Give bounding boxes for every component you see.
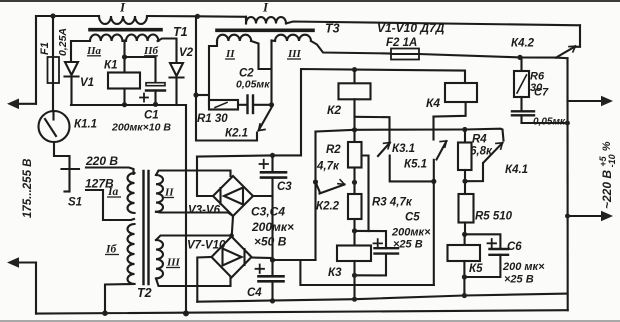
svg-text:200мк×: 200мк× <box>391 227 431 239</box>
wire long vertical rail x186 <box>185 105 187 314</box>
node K2.2 riser <box>313 179 318 184</box>
wire right edge vertical <box>566 58 568 310</box>
node III top / interbridge <box>229 233 234 238</box>
svg-text:R2: R2 <box>326 144 341 156</box>
wire F2 to K4.2 <box>419 54 556 58</box>
node K5 C6 bottom <box>462 274 467 279</box>
rectifier bridge V7-V10 <box>212 237 252 278</box>
node C7 join <box>565 121 570 126</box>
svg-text:0,05мк: 0,05мк <box>236 79 270 91</box>
resistor R3 <box>348 194 362 246</box>
wire top rail right segment to K4.2 <box>286 22 580 26</box>
wire C5 top feed <box>355 231 387 248</box>
contact K4.2 <box>556 25 580 57</box>
wire T1 loop bottom <box>71 104 186 106</box>
scan border top <box>0 0 620 2</box>
node lower arrow junction <box>565 214 570 219</box>
node midpoint C4 top <box>270 257 275 262</box>
transformer T1 core <box>90 28 161 32</box>
wire F1 to K1.1 <box>52 83 54 111</box>
wire left edge lower <box>35 263 37 314</box>
wire T2 winding III top to bridge V7-V10 <box>156 236 232 241</box>
svg-text:III: III <box>287 48 302 60</box>
fuse F2 <box>391 49 419 60</box>
svg-text:V2: V2 <box>179 47 194 59</box>
contact K2.1 <box>259 108 272 131</box>
wire junction riser to K2.1 node <box>270 41 272 105</box>
svg-text:I: I <box>262 0 269 15</box>
wire K4.2 pivot to right vertical <box>556 57 568 60</box>
svg-text:0,25А: 0,25А <box>57 28 69 56</box>
wire junction to T3 II left <box>196 94 209 96</box>
svg-text:К4.2: К4.2 <box>511 38 535 50</box>
wire K5 bottom <box>463 261 465 296</box>
svg-text:R6: R6 <box>530 71 545 83</box>
contact K1.1 <box>39 111 70 142</box>
wire K2 bottom chain <box>353 99 355 142</box>
svg-text:S1: S1 <box>68 197 82 209</box>
diode V2 <box>170 63 184 105</box>
label C3 C4 group <box>251 205 294 249</box>
svg-text:175...255 В: 175...255 В <box>22 159 34 218</box>
transformer T1 secondary winding IIa <box>90 34 122 41</box>
svg-text:Т3: Т3 <box>325 22 340 36</box>
wire line B horizontal <box>316 129 504 141</box>
node tap / K1 / C1 <box>122 54 127 59</box>
capacitor C7 <box>512 97 534 123</box>
svg-text:6,8к: 6,8к <box>470 146 493 158</box>
label winding Ib of T2 <box>105 244 119 256</box>
node K3.1 K5.1 pivot junction <box>431 179 436 184</box>
node R6 top <box>517 55 522 60</box>
svg-text:200мк×10 В: 200мк×10 В <box>111 122 171 134</box>
wire T1 secondary left end to V1 <box>71 41 90 62</box>
svg-text:I: I <box>119 0 126 15</box>
label C6 value <box>502 261 545 286</box>
transformer T3 core <box>217 28 313 32</box>
wire R1 to C2 <box>238 104 247 106</box>
label winding III of T2 <box>166 257 181 269</box>
wire R2 side tap <box>362 156 369 232</box>
wire K1.1 to S1 <box>54 142 70 192</box>
svg-text:R3 4,7к: R3 4,7к <box>372 197 413 209</box>
contact K4.1 <box>465 143 503 181</box>
svg-text:Т1: Т1 <box>173 25 188 39</box>
svg-text:К2: К2 <box>327 103 341 117</box>
svg-text:К4.1: К4.1 <box>505 164 528 176</box>
wire T2 winding II bottom to bridge V3-V6 <box>156 212 233 216</box>
node K3 C5 bottom <box>352 273 357 278</box>
wire C6 top feed <box>465 234 501 249</box>
wire W2 down to y285 run <box>300 260 433 285</box>
label C5 value <box>391 227 431 251</box>
svg-text:R1 30: R1 30 <box>197 113 228 125</box>
wire T2 primary bottom return <box>105 284 135 313</box>
node K2 top <box>352 67 357 72</box>
svg-text:II: II <box>164 187 174 199</box>
input arrow upper left <box>7 99 36 110</box>
scan border bottom <box>0 320 620 322</box>
relay K5 coil <box>448 234 481 261</box>
wire left edge upper <box>35 16 37 104</box>
node top rail / V2 branch <box>195 14 200 19</box>
svg-text:V3-V6: V3-V6 <box>188 205 221 217</box>
relay K3 coil <box>337 246 371 262</box>
wire T2 winding III bottom to bridge V7-V10 <box>156 278 231 287</box>
wire T2 winding II top to bridge V3-V6 <box>156 171 231 177</box>
svg-text:К5.1: К5.1 <box>404 159 427 171</box>
resistor R1 <box>209 100 238 110</box>
node K5 chain on inner rail <box>462 293 467 298</box>
svg-text:С4: С4 <box>247 287 262 299</box>
contact K3.1 <box>378 143 390 157</box>
svg-text:К1: К1 <box>104 60 117 72</box>
svg-text:×50 В: ×50 В <box>254 235 287 249</box>
node C2 K2.1 junction <box>269 102 274 107</box>
wire inner bottom rail <box>197 294 567 302</box>
wire F1 branch upper <box>52 16 54 57</box>
wire 220V tap <box>86 168 134 175</box>
transformer T3 secondary winding II <box>217 35 251 41</box>
switch S1 blade bar <box>62 169 80 192</box>
wire bridge V3-V6 plus output <box>197 157 213 197</box>
svg-text:С3: С3 <box>277 181 292 193</box>
wire midpoint to K2.2 riser <box>273 259 316 261</box>
svg-text:III: III <box>166 257 181 269</box>
node K1 bottom junction <box>122 102 127 107</box>
resistor R6 <box>514 57 529 97</box>
transformer T3 primary winding I <box>246 17 286 24</box>
svg-text:Т2: Т2 <box>137 286 152 300</box>
fuse F1 <box>48 57 60 83</box>
svg-text:×25 В: ×25 В <box>504 274 534 286</box>
transformer T2 secondary winding II <box>156 175 163 212</box>
node K2 R2 line B <box>352 127 357 132</box>
wire 127V tap <box>86 190 134 220</box>
wire K1 bottom <box>123 89 125 105</box>
wire T3 III left end <box>272 39 276 42</box>
svg-text:V1: V1 <box>80 77 94 89</box>
svg-text:R4: R4 <box>472 134 487 146</box>
node R5 bottom C6 K5 <box>462 232 467 237</box>
wire T1 center tap <box>123 41 125 73</box>
relay K4 coil <box>445 83 477 102</box>
svg-text:V7-V10: V7-V10 <box>187 240 226 252</box>
capacitor C6 <box>464 239 508 277</box>
contact K2.2 <box>316 180 345 194</box>
svg-text:С6: С6 <box>507 241 522 253</box>
svg-text:С5: С5 <box>405 212 420 224</box>
node C3 top <box>270 153 275 158</box>
wire bridge V7-V10 left to inner rail <box>197 257 211 302</box>
diode V1 <box>65 62 79 105</box>
wire top rail left segment <box>36 15 99 17</box>
wire V2 branch vertical <box>195 16 197 95</box>
node R3 bottom K3 C5 <box>352 228 357 233</box>
transformer T2 core <box>144 171 149 284</box>
input arrow lower left <box>7 257 36 268</box>
svg-text:К5: К5 <box>469 263 483 275</box>
wire bridge V7-V10 right to midpoint <box>252 256 273 259</box>
wire line A left segment to K3.1 <box>355 117 390 141</box>
wire T3 II right to III left junction <box>251 41 272 69</box>
wire K3.1 pivot down <box>390 156 434 182</box>
wire outer bottom rail <box>36 310 568 313</box>
transformer T2 secondary winding III <box>156 240 163 278</box>
capacitor C2 <box>248 96 272 114</box>
resistor R5 <box>459 194 474 234</box>
node line B R4 <box>462 127 467 132</box>
svg-text:К3.1: К3.1 <box>392 143 415 155</box>
label winding IIa of T1 <box>86 45 102 57</box>
node rail x186 on outer rail <box>183 310 189 316</box>
svg-text:R5 510: R5 510 <box>475 211 513 223</box>
svg-text:F2 1А: F2 1А <box>386 37 417 49</box>
svg-text:×25 В: ×25 В <box>393 239 423 251</box>
wire bridge V3-V6 minus to midpoint <box>253 195 273 197</box>
node C1 bottom junction <box>153 102 158 107</box>
wire top rail middle segment <box>147 15 246 18</box>
svg-text:К2.1: К2.1 <box>225 128 248 140</box>
wire T3 II left end down <box>209 41 217 105</box>
svg-text:К2.2: К2.2 <box>316 201 340 213</box>
label winding III of T3 <box>287 48 302 60</box>
node C4 bottom on inner rail <box>270 298 275 303</box>
relay K1 coil <box>108 73 140 89</box>
svg-text:200мк×: 200мк× <box>251 220 294 234</box>
svg-text:К3: К3 <box>328 267 342 279</box>
svg-text:4,7к: 4,7к <box>316 161 340 173</box>
wire K2.2 branch riser <box>314 132 316 261</box>
wire plus rail riser and top run <box>301 69 465 155</box>
wire C1 top feed <box>125 57 156 83</box>
label winding II of T3 <box>225 48 235 60</box>
node top rail / F1 <box>50 13 55 18</box>
resistor R2 <box>348 142 362 194</box>
node R2 R3 K2.2 <box>352 180 357 185</box>
relay K2 coil <box>339 70 371 100</box>
capacitor C4 <box>256 265 284 301</box>
label winding Ia of T2 <box>107 186 121 198</box>
svg-text:V1-V10 Д7Д: V1-V10 Д7Д <box>377 21 445 35</box>
svg-text:~220 В +5-10 %: ~220 В +5-10 % <box>598 141 617 209</box>
svg-text:Iб: Iб <box>105 244 117 256</box>
wire K5.1 pivot vertical <box>433 160 435 285</box>
wire midpoint chain <box>271 178 273 277</box>
node R4 bottom K4.1 pivot <box>462 179 467 184</box>
capacitor C1 <box>140 83 165 105</box>
transformer T3 secondary winding III <box>275 35 311 41</box>
transformer T2 primary winding Ib <box>128 224 135 284</box>
capacitor C3 <box>260 155 287 177</box>
node T2 return on outer rail <box>102 310 108 316</box>
node K3 chain on inner rail <box>352 297 357 302</box>
svg-text:С3,С4: С3,С4 <box>251 205 285 219</box>
node R1 left junction <box>193 92 198 97</box>
transformer T1 secondary winding IIb <box>126 34 158 41</box>
svg-text:0,05мк: 0,05мк <box>533 117 566 128</box>
wire C7 to right vertical <box>522 122 568 124</box>
svg-text:К1.1: К1.1 <box>74 119 97 131</box>
transformer T1 primary winding I <box>99 16 147 24</box>
wire interbridge vertical <box>232 216 233 237</box>
output arrow upper right <box>568 96 614 107</box>
svg-text:200 мк×: 200 мк× <box>502 261 545 273</box>
transformer T2 primary winding Ia <box>128 173 135 213</box>
wire line A right segment to K4 <box>434 102 466 116</box>
label winding II of T2 <box>164 187 174 199</box>
svg-text:F1: F1 <box>39 42 51 55</box>
wire T1 secondary right end to V2 <box>158 39 177 64</box>
wire K2.1 loop left and bottom <box>196 95 257 141</box>
wire plus rail horizontal <box>197 155 301 156</box>
contact K5.1 <box>434 117 447 160</box>
svg-text:II: II <box>225 48 235 60</box>
wire K3 bottom <box>353 261 355 299</box>
rectifier bridge V3-V6 <box>213 176 253 216</box>
label winding IIb of T1 <box>143 45 159 57</box>
svg-text:К4: К4 <box>426 96 440 110</box>
svg-text:С7: С7 <box>534 87 549 99</box>
svg-text:С1: С1 <box>144 110 159 122</box>
resistor R4 <box>458 130 472 195</box>
capacitor C5 <box>355 239 399 275</box>
output arrow lower right <box>568 211 614 222</box>
svg-text:Iа: Iа <box>107 186 118 198</box>
wire T3 III right to fuse F2 <box>311 41 391 54</box>
svg-text:220 В: 220 В <box>85 154 118 168</box>
